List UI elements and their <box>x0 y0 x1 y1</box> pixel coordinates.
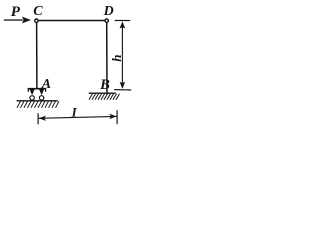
dimension h top tick <box>115 20 131 22</box>
dimension l right arrowhead <box>109 114 116 119</box>
dimension h line <box>121 26 123 84</box>
hinge C <box>35 19 38 22</box>
svg-text:P: P <box>11 4 21 20</box>
support A right wedge <box>39 89 44 95</box>
dimension l line <box>39 116 117 118</box>
dimension l right tick <box>116 110 118 124</box>
support A left wedge <box>30 89 35 95</box>
beam CD <box>36 20 106 22</box>
support A right roller <box>39 96 43 100</box>
ground line at A <box>17 100 58 102</box>
ground line at B <box>89 92 116 94</box>
right column DB <box>106 21 108 94</box>
support A top plate <box>28 88 47 90</box>
support A left roller <box>30 96 34 100</box>
dimension l left tick <box>37 113 39 124</box>
dimension h bottom tick <box>114 89 131 91</box>
svg-text:D: D <box>103 4 114 19</box>
ground hatching at B <box>89 94 120 100</box>
support A plate left tick <box>27 89 29 92</box>
dimension h bottom arrowhead <box>120 82 126 89</box>
svg-text:I: I <box>71 105 78 120</box>
svg-text:C: C <box>33 4 43 19</box>
force P arrow <box>4 17 31 24</box>
left column CA <box>36 21 38 89</box>
dimension h top arrowhead <box>120 21 126 28</box>
svg-text:B: B <box>99 77 110 93</box>
support A plate right tick <box>45 89 47 92</box>
dimension l left arrowhead <box>39 116 46 121</box>
svg-text:h: h <box>109 55 124 62</box>
hinge D <box>105 19 108 22</box>
ground hatching at A <box>17 101 59 108</box>
